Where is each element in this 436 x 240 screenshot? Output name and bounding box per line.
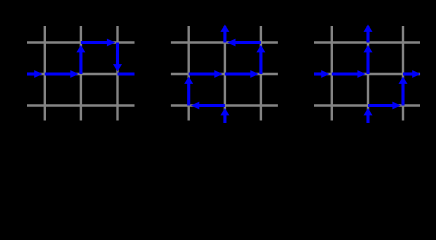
fig2 path arrow up exit at top bbox=[220, 25, 229, 43]
fig1 grid horizontal line bottom bbox=[27, 104, 135, 106]
fig1 path exit segment right on middle line bbox=[118, 72, 135, 75]
fig3 grid vertical line right bbox=[402, 26, 404, 121]
fig1 path arrow up on center vertical bbox=[76, 45, 85, 74]
fig3 grid vertical line left bbox=[331, 26, 333, 121]
fig3 path arrow up on center vertical bbox=[364, 45, 373, 74]
fig3 path arrow up exit at top bbox=[364, 25, 373, 43]
fig2 grid vertical line center bbox=[224, 26, 226, 121]
fig3 grid horizontal line top bbox=[314, 41, 420, 43]
fig1 grid horizontal line top bbox=[27, 41, 135, 43]
fig1 grid vertical line right bbox=[116, 26, 118, 121]
fig3 path arrow up on right vertical bbox=[399, 77, 408, 106]
fig1 grid horizontal line middle bbox=[27, 73, 135, 75]
fig2 path arrow up entry from bottom bbox=[220, 108, 229, 123]
fig2 grid horizontal line top bbox=[171, 41, 278, 43]
fig3 grid vertical line center bbox=[367, 26, 369, 121]
fig1 path arrow right entry on middle line bbox=[27, 70, 43, 78]
fig1 grid vertical line center bbox=[80, 26, 82, 121]
fig2 grid horizontal line middle bbox=[171, 73, 278, 75]
fig1 path arrow down on right vertical bbox=[113, 43, 122, 72]
fig3 path arrow up entry from bottom bbox=[364, 108, 373, 123]
fig1 grid vertical line left bbox=[44, 26, 46, 121]
fig2 grid horizontal line bottom bbox=[171, 104, 278, 106]
fig2 path arrow right on middle line 2 bbox=[225, 70, 259, 78]
fig2 path arrow right on middle line 1 bbox=[189, 70, 223, 78]
fig3 grid horizontal line bottom bbox=[314, 104, 420, 106]
fig2 grid vertical line left bbox=[187, 26, 189, 121]
fig1 path arrow right on middle line bbox=[45, 70, 79, 78]
fig3 path arrow right exit on middle line bbox=[403, 70, 421, 78]
fig3 grid horizontal line middle bbox=[314, 73, 420, 75]
fig3 path arrow right entry on middle line bbox=[314, 70, 330, 78]
fig2 path arrow up on left vertical bbox=[184, 77, 193, 106]
fig2 path arrow up on right vertical bbox=[256, 45, 265, 74]
fig1 path arrow right on top line bbox=[81, 39, 115, 47]
fig2 path arrow left on top line bbox=[227, 39, 261, 47]
fig3 path arrow right on bottom line bbox=[368, 102, 401, 110]
fig2 grid vertical line right bbox=[260, 26, 262, 121]
fig3 path arrow right on middle line bbox=[332, 70, 366, 78]
fig2 path arrow left on bottom line bbox=[191, 102, 225, 110]
